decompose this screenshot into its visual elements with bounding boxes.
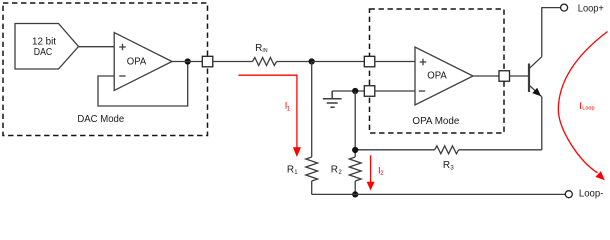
port square P3 (OPA Mode - input) (364, 86, 375, 97)
label R1 (287, 164, 298, 176)
wire ground to port P3 (332, 90, 364, 92)
svg-text:OPA Mode: OPA Mode (412, 116, 459, 127)
resistor R3 (435, 146, 459, 154)
node B junction (ground / R2 top branch) (352, 88, 358, 94)
svg-text:R: R (255, 43, 262, 54)
svg-text:R: R (443, 160, 450, 171)
svg-text:2: 2 (338, 170, 342, 176)
terminal Loop- (565, 191, 572, 198)
wire node A to port P2 (312, 61, 365, 63)
resistor R1 (306, 157, 318, 181)
ground (323, 91, 342, 107)
op-amp U2 (OPA Mode OPA) (415, 47, 473, 105)
wire Q1 emitter down to R3 node (541, 97, 543, 150)
wire R1 branch from node A (311, 62, 313, 158)
svg-text:1: 1 (294, 170, 298, 176)
node C junction (R2 top / R3) (352, 147, 358, 153)
label Loop- (579, 188, 604, 199)
label ILOOP (579, 101, 594, 112)
svg-text:Loop-: Loop- (579, 188, 604, 199)
wire DAC output to op-amp U1 + input (79, 46, 115, 48)
wire R2 bottom to rail (354, 181, 356, 194)
wire U2 output to port P4 (473, 75, 499, 77)
DAC Mode dashed box (3, 3, 208, 136)
label R3 (443, 160, 455, 172)
wire U1 output to port P1 (172, 61, 202, 63)
port square P1 (DAC Mode output) (202, 56, 213, 67)
svg-text:Loop: Loop (582, 106, 594, 112)
svg-text:2: 2 (380, 171, 384, 177)
label Loop+ (578, 3, 604, 14)
svg-text:OPA: OPA (127, 57, 147, 68)
resistor R2 (349, 157, 361, 181)
label RIN (255, 43, 268, 54)
wire node B to node C (R2 branch upper) (354, 91, 356, 157)
svg-text:12 bit: 12 bit (32, 36, 56, 47)
terminal Loop+ (561, 4, 568, 11)
svg-text:Loop+: Loop+ (578, 3, 604, 14)
current arrow I1 (238, 75, 297, 147)
port square P2 (OPA Mode + input) (364, 56, 375, 67)
wire R3 to node C (355, 149, 434, 151)
wire P4 to transistor Q1 base (510, 75, 530, 77)
svg-text:IN: IN (262, 48, 267, 54)
bottom rail wire to Loop- (312, 193, 566, 195)
wire R3 right segment (459, 149, 542, 151)
svg-text:R: R (331, 164, 338, 175)
svg-text:DAC: DAC (34, 47, 53, 58)
label 12 bit DAC (32, 36, 56, 58)
port square P4 (OPA Mode output) (499, 71, 510, 82)
node D junction (R2 bottom on rail) (352, 191, 358, 197)
wire P2 to U2 + input (375, 61, 415, 63)
svg-text:1: 1 (287, 106, 291, 112)
current arrow I2 (370, 155, 372, 182)
op-amp U1 (DAC Mode OPA) (114, 33, 172, 91)
svg-text:3: 3 (450, 165, 454, 171)
wire P1 to resistor RIN (213, 61, 253, 63)
12 bit DAC block (15, 24, 79, 70)
wire RIN to node A (277, 61, 312, 63)
label I2 (378, 165, 384, 177)
resistor RIN (253, 58, 277, 66)
node A junction (RIN / R1 / U2+) (309, 58, 315, 64)
transistor Q1 (528, 64, 530, 93)
current arrow ILOOP (558, 32, 607, 173)
svg-text:R: R (287, 164, 294, 175)
wire P3 to U2 - input (375, 90, 415, 92)
wire Q1 collector to Loop+ terminal (542, 8, 561, 57)
node: U1 output junction (185, 58, 191, 64)
label DAC Mode (77, 114, 124, 125)
wire R1 bottom to rail (311, 181, 313, 194)
U1 feedback wire from output to - input (98, 62, 188, 107)
svg-text:DAC Mode: DAC Mode (77, 114, 124, 125)
OPA Mode dashed box (370, 9, 505, 133)
label OPA Mode (412, 116, 459, 127)
label R2 (331, 164, 343, 176)
label I1 (285, 100, 291, 112)
svg-text:OPA: OPA (427, 71, 447, 82)
